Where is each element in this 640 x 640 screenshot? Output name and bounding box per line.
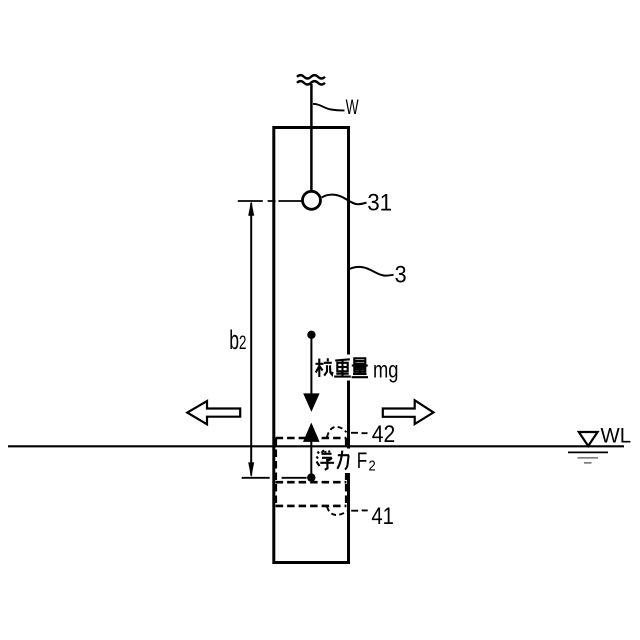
svg-text:41: 41 <box>371 503 394 530</box>
svg-text:F: F <box>357 448 368 473</box>
svg-text:b: b <box>229 325 239 355</box>
svg-text:42: 42 <box>372 421 396 448</box>
svg-text:3: 3 <box>395 261 407 288</box>
svg-text:2: 2 <box>239 333 247 354</box>
svg-text:W: W <box>346 96 359 119</box>
svg-text:31: 31 <box>367 190 392 217</box>
svg-text:mg: mg <box>373 356 399 382</box>
svg-text:WL: WL <box>601 424 632 447</box>
svg-text:2: 2 <box>369 457 376 474</box>
